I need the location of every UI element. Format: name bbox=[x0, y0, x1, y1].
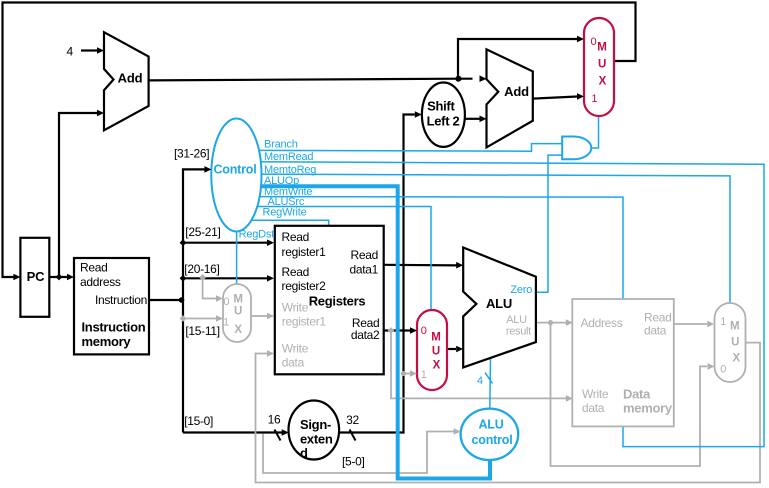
svg-text:X: X bbox=[234, 324, 242, 336]
svg-text:4: 4 bbox=[67, 45, 74, 59]
svg-text:Zero: Zero bbox=[510, 284, 532, 296]
svg-text:Read: Read bbox=[282, 265, 310, 279]
svg-text:Data: Data bbox=[623, 387, 651, 402]
svg-text:U: U bbox=[234, 306, 242, 318]
svg-text:Read: Read bbox=[80, 261, 108, 275]
svg-text:data2: data2 bbox=[351, 328, 380, 342]
svg-text:data: data bbox=[582, 401, 605, 415]
svg-text:Branch: Branch bbox=[264, 139, 298, 151]
svg-text:4: 4 bbox=[477, 375, 483, 387]
svg-text:Left 2: Left 2 bbox=[427, 114, 460, 129]
svg-text:RegWrite: RegWrite bbox=[263, 207, 307, 219]
svg-text:M: M bbox=[233, 293, 243, 305]
svg-text:data: data bbox=[282, 355, 305, 369]
svg-text:d: d bbox=[300, 446, 308, 461]
svg-text:Write: Write bbox=[282, 342, 309, 356]
svg-text:1: 1 bbox=[591, 93, 597, 105]
svg-text:Instruction: Instruction bbox=[95, 293, 147, 307]
svg-text:Read: Read bbox=[282, 230, 310, 244]
svg-text:32: 32 bbox=[346, 413, 359, 427]
svg-text:Read: Read bbox=[644, 311, 672, 325]
svg-text:M: M bbox=[431, 331, 441, 343]
svg-text:ALU: ALU bbox=[486, 296, 512, 311]
svg-text:0: 0 bbox=[421, 325, 427, 337]
svg-text:ALU: ALU bbox=[478, 418, 503, 432]
svg-text:data: data bbox=[644, 323, 667, 337]
svg-text:Add: Add bbox=[118, 71, 143, 86]
svg-text:Read: Read bbox=[351, 248, 379, 262]
svg-text:X: X bbox=[599, 76, 607, 88]
svg-text:U: U bbox=[598, 59, 606, 71]
svg-text:[15-0]: [15-0] bbox=[184, 414, 213, 428]
svg-text:ALUOp: ALUOp bbox=[264, 175, 299, 187]
svg-text:result: result bbox=[506, 325, 531, 337]
svg-text:RegDst: RegDst bbox=[239, 229, 275, 241]
svg-text:address: address bbox=[80, 275, 121, 289]
svg-text:register1: register1 bbox=[282, 245, 327, 259]
svg-text:MemRead: MemRead bbox=[264, 151, 313, 163]
svg-text:0: 0 bbox=[223, 296, 229, 308]
svg-text:[5-0]: [5-0] bbox=[342, 455, 365, 469]
svg-text:Add: Add bbox=[504, 84, 529, 99]
svg-text:16: 16 bbox=[268, 413, 281, 427]
svg-text:U: U bbox=[432, 345, 440, 357]
svg-text:M: M bbox=[730, 321, 740, 333]
svg-text:Registers: Registers bbox=[309, 294, 366, 309]
svg-text:[20-16]: [20-16] bbox=[184, 262, 219, 276]
svg-text:exten: exten bbox=[300, 431, 333, 446]
svg-text:M: M bbox=[597, 41, 607, 53]
svg-text:Shift: Shift bbox=[427, 99, 455, 114]
svg-text:X: X bbox=[433, 359, 441, 371]
svg-text:X: X bbox=[732, 353, 740, 365]
svg-text:ALU: ALU bbox=[506, 314, 527, 326]
svg-text:[25-21]: [25-21] bbox=[185, 225, 220, 239]
svg-text:memory: memory bbox=[82, 334, 132, 349]
svg-text:Address: Address bbox=[581, 316, 623, 330]
svg-text:0: 0 bbox=[720, 363, 726, 375]
svg-text:Write: Write bbox=[282, 301, 309, 315]
svg-text:1: 1 bbox=[223, 316, 229, 328]
svg-text:register1: register1 bbox=[282, 315, 327, 329]
svg-text:[31-26]: [31-26] bbox=[174, 147, 209, 161]
svg-text:register2: register2 bbox=[282, 279, 327, 293]
svg-text:Write: Write bbox=[582, 387, 609, 401]
svg-text:Control: Control bbox=[213, 163, 256, 177]
svg-text:data1: data1 bbox=[349, 263, 378, 277]
svg-text:[15-11]: [15-11] bbox=[185, 324, 219, 338]
svg-text:PC: PC bbox=[27, 269, 45, 284]
svg-text:1: 1 bbox=[421, 369, 427, 381]
svg-text:U: U bbox=[731, 337, 739, 349]
svg-text:Sign-: Sign- bbox=[300, 417, 331, 432]
svg-text:0: 0 bbox=[590, 36, 596, 48]
svg-text:1: 1 bbox=[720, 316, 726, 328]
svg-text:control: control bbox=[472, 433, 513, 447]
svg-text:memory: memory bbox=[623, 401, 673, 416]
svg-text:Instruction: Instruction bbox=[82, 320, 146, 335]
